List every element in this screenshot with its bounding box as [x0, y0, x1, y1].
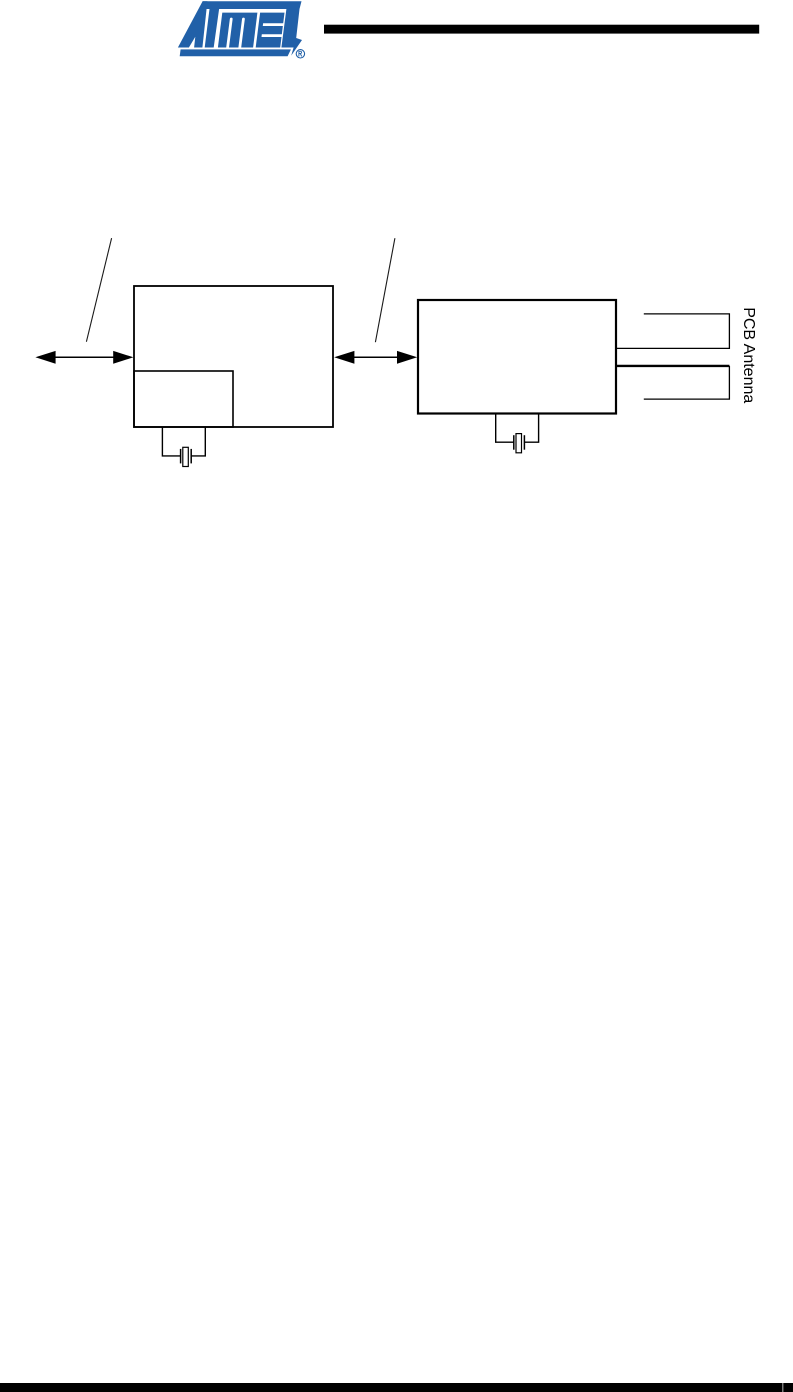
logo letter L with blade: [281, 9, 302, 56]
crystal X1 plates: [181, 449, 192, 464]
crystal X1 wires: [162, 428, 205, 456]
middle double arrow: [334, 351, 417, 364]
logo A white notch: [189, 37, 195, 48]
logo letter M: [218, 13, 258, 48]
antenna trace bottom: [644, 366, 730, 399]
logo registered mark: [296, 50, 304, 58]
slash 2 (antenna stroke over middle arrow): [375, 238, 395, 342]
antenna trace top: [616, 314, 729, 349]
footer bar: [0, 1383, 793, 1392]
logo letter A: [178, 1, 208, 47]
logo E slit 2: [262, 34, 284, 37]
logo M slit 2: [238, 18, 244, 48]
logo letter E: [256, 13, 285, 48]
crystal X2 plates: [514, 435, 525, 450]
left box (MCU): [134, 286, 333, 427]
footer bar gap line: [782, 1383, 784, 1392]
logo E slit 1: [263, 23, 285, 26]
logo top band + letter T: [203, 1, 302, 47]
left double arrow: [35, 351, 133, 364]
Atmel logo: [176, 1, 305, 58]
crystal X2 wires: [496, 415, 539, 443]
header rule bar: [324, 25, 759, 34]
svg-text:PCB Antenna: PCB Antenna: [740, 307, 757, 403]
logo letters-bar white gap: [176, 48, 294, 50]
logo bottom bar: [180, 49, 291, 56]
slash 1 (antenna stroke over left arrow): [86, 238, 111, 342]
inner box: [134, 371, 233, 427]
crystal X1 body: [183, 447, 189, 466]
antenna feed bottom (thick): [616, 365, 729, 367]
logo M slit 1: [226, 18, 232, 48]
crystal X2 body: [516, 434, 522, 453]
right box (transceiver): [418, 300, 616, 414]
